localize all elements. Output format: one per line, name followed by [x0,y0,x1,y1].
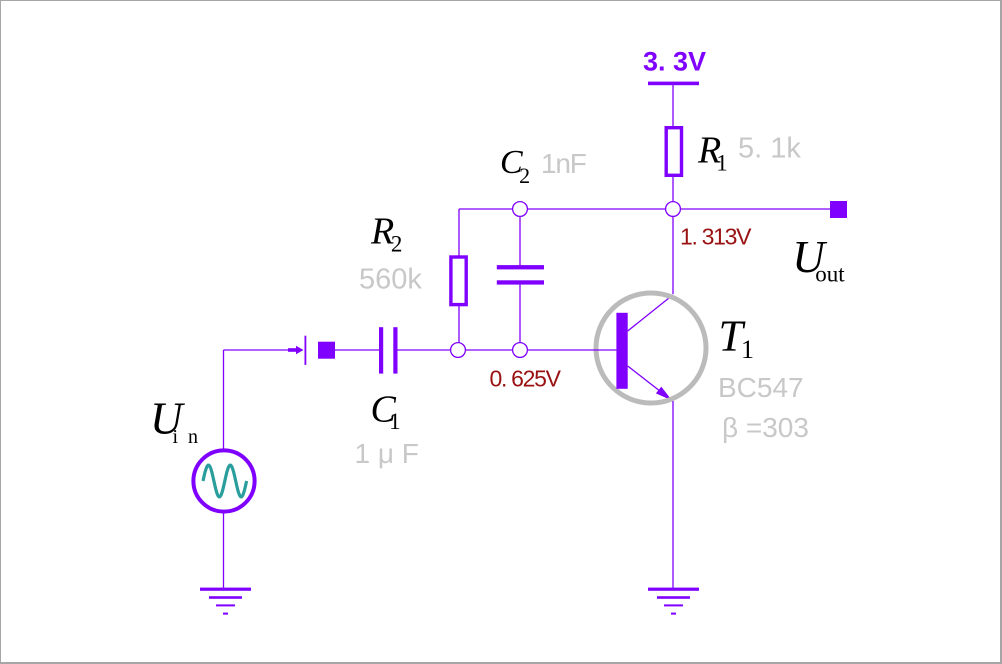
svg-text:T1: T1 [719,311,754,364]
capacitor C1 [379,327,398,373]
svg-text:560k: 560k [359,264,422,296]
output terminal square [830,201,847,218]
node at R2 bottom [451,343,466,358]
svg-text:R1: R1 [697,130,728,176]
capacitor C2 [497,265,544,284]
svg-text:C1: C1 [371,389,401,435]
input port bar [305,336,307,365]
collector line [628,295,673,331]
base bar [616,313,627,389]
ground left [200,588,251,615]
svg-text:Ui n: Ui n [150,394,201,448]
svg-text:1nF: 1nF [541,148,586,179]
input port arrow [288,346,304,354]
wire collector lead [672,209,674,294]
svg-text:β =303: β =303 [722,412,809,443]
wire emitter lead [672,401,674,589]
wire C2 bottom lead [519,285,521,351]
source sine wave [203,465,247,497]
transistor T1 [596,293,706,403]
svg-text:BC547: BC547 [718,372,804,403]
emitter arrow [656,387,672,401]
wire R2 top lead [458,209,460,256]
wire source top lead [223,350,225,450]
wire square to C1 [335,349,379,351]
svg-text:3. 3V: 3. 3V [643,47,706,77]
wire R2 bottom lead [458,304,460,350]
wire R1 to node [672,175,674,209]
svg-text:Uout: Uout [792,232,845,286]
svg-text:R2: R2 [370,211,402,257]
node at collector [666,202,681,217]
svg-text:5. 1k: 5. 1k [738,133,801,165]
source Uin circle [193,450,254,511]
wire C2 top lead [519,209,521,265]
svg-text:C2: C2 [500,144,530,188]
wire supply to R1 [672,85,674,127]
emitter line [628,366,670,399]
node at C2 bottom [513,343,528,358]
node at C2 top [513,202,528,217]
input wire to arrow [224,349,291,351]
top wire [459,208,830,210]
power supply 3.3V bar [648,82,699,86]
resistor R2 [451,257,466,305]
ground right [648,588,699,615]
svg-text:0. 625V: 0. 625V [490,366,562,392]
input terminal square [318,342,335,359]
wire C1 to base [398,349,617,351]
resistor R1 [666,128,681,176]
transistor body circle [596,293,706,403]
svg-text:1. 313V: 1. 313V [680,224,752,250]
wire source bottom lead [223,512,225,589]
svg-text:1 μ F: 1 μ F [355,438,419,469]
